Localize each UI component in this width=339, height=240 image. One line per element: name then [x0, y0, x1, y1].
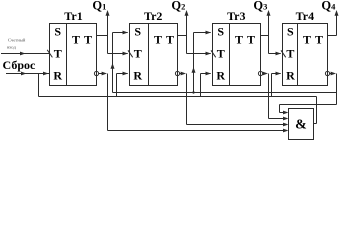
svg-text:S: S	[54, 25, 61, 39]
label Q3	[253, 0, 267, 13]
wire Q1 stub from Tr1	[97, 35, 108, 37]
label Счетный вход	[7, 37, 26, 49]
inverted output circle of Tr1	[94, 71, 98, 75]
svg-text:T: T	[247, 33, 255, 47]
label Q4	[321, 0, 336, 13]
wire H1 riser to S of Tr2	[111, 31, 129, 93]
svg-text:T: T	[134, 47, 142, 61]
wire notQ2 to drop	[180, 72, 186, 76]
wire notQ2 drop to AND input 3	[187, 74, 289, 127]
wire Q2 to T of Tr3	[187, 52, 212, 56]
wire reset drop to bus H2	[38, 74, 40, 97]
svg-text:R: R	[286, 69, 295, 83]
wire notQ3 to drop	[263, 72, 268, 76]
wire count input to T of Tr1	[1, 52, 50, 56]
svg-text:T: T	[166, 33, 174, 47]
svg-text:T: T	[72, 33, 80, 47]
flip-flop Tr3 pin labels S T R	[216, 25, 225, 83]
svg-text:Q3: Q3	[253, 0, 267, 13]
wire Q4 stub from Tr4	[328, 35, 337, 37]
wire notQ1 to drop	[99, 72, 107, 76]
svg-text:вход: вход	[7, 44, 16, 49]
flip-flop Tr1 box	[50, 24, 97, 86]
svg-text:Q1: Q1	[92, 0, 106, 13]
wire AND output to reset bus H2	[314, 97, 317, 124]
AND gate U1 box	[289, 109, 314, 140]
flip-flop Tr1 pin labels S T R	[53, 25, 62, 83]
AND gate U1 ampersand label	[295, 118, 307, 133]
label Tr4	[296, 9, 314, 23]
label Tr2	[144, 9, 162, 23]
svg-text:Tr4: Tr4	[296, 9, 314, 23]
svg-text:Tr1: Tr1	[64, 9, 82, 23]
svg-text:Tr3: Tr3	[227, 9, 245, 23]
label Q2	[171, 0, 185, 13]
dynamic input slash on T of Tr3	[211, 50, 216, 57]
svg-text:T: T	[217, 47, 225, 61]
flip-flop Tr3 type label TT	[235, 33, 255, 47]
dynamic input slash on T of Tr2	[128, 50, 133, 57]
flip-flop Tr4 box	[283, 24, 328, 86]
inverted output circle of Tr3	[258, 71, 262, 75]
bus H2 reset	[39, 96, 317, 98]
node Q1 output arrow	[106, 10, 110, 54]
wire notQ4 drop down	[336, 74, 338, 105]
svg-text:S: S	[134, 25, 141, 39]
svg-text:T: T	[315, 33, 323, 47]
wire notQ4 across to AND input 1	[280, 105, 337, 115]
wire H2 riser to R of Tr2	[117, 72, 129, 97]
svg-text:T: T	[154, 33, 162, 47]
bus H1 feedback from notQ4	[113, 92, 337, 94]
flip-flop Tr2 pin labels S T R	[133, 25, 142, 83]
flip-flop Tr3 box	[213, 24, 261, 86]
svg-text:Счетный: Счетный	[8, 37, 26, 42]
label Tr1	[64, 9, 82, 23]
svg-text:T: T	[286, 47, 294, 61]
svg-text:&: &	[295, 118, 307, 133]
svg-text:T: T	[54, 47, 62, 61]
wire reset input to R of Tr1	[6, 72, 50, 76]
wire H2 riser to R of Tr4	[272, 72, 282, 97]
svg-text:S: S	[217, 25, 224, 39]
wire Q1 to T of Tr2	[108, 52, 129, 56]
label Q1	[92, 0, 106, 13]
node Q3 output arrow	[267, 10, 271, 54]
svg-text:T: T	[303, 33, 311, 47]
label Tr3	[227, 9, 245, 23]
flip-flop Tr4 type label TT	[303, 33, 323, 47]
svg-text:S: S	[287, 25, 294, 39]
svg-text:Tr2: Tr2	[144, 9, 162, 23]
wire notQ3 drop to AND input 2	[269, 74, 289, 121]
label Сброс	[3, 58, 36, 72]
wire Q3 to T of Tr4	[269, 52, 282, 56]
svg-text:Q2: Q2	[171, 0, 185, 13]
node junction dot H1 S3 riser	[192, 91, 194, 93]
flip-flop Tr2 box	[130, 24, 178, 86]
flip-flop Tr1 type label TT	[72, 33, 92, 47]
svg-text:Сброс: Сброс	[3, 58, 36, 72]
svg-text:R: R	[53, 69, 62, 83]
wire Q3 stub from Tr3	[261, 35, 269, 37]
flip-flop Tr2 type label TT	[154, 33, 174, 47]
wire Q2 stub from Tr2	[178, 35, 187, 37]
wire H1 riser to S of Tr3	[192, 31, 212, 93]
inverted output circle of Tr2	[175, 71, 179, 75]
node Q2 output arrow	[185, 10, 189, 54]
svg-text:R: R	[133, 69, 142, 83]
svg-text:Q4: Q4	[321, 0, 336, 13]
flip-flop Tr4 pin labels S T R	[286, 25, 295, 83]
node Q4 output arrow	[335, 10, 339, 36]
svg-text:R: R	[216, 69, 225, 83]
inverted output circle of Tr4	[325, 71, 329, 75]
dynamic input slash on T of Tr4	[281, 50, 286, 57]
svg-text:T: T	[84, 33, 92, 47]
wire notQ1 drop to AND input 4	[108, 74, 289, 133]
svg-text:T: T	[235, 33, 243, 47]
wire notQ4 to drop	[330, 72, 336, 76]
wire H2 riser to R of Tr3	[201, 72, 212, 97]
dynamic input slash on T of Tr1	[47, 50, 52, 58]
